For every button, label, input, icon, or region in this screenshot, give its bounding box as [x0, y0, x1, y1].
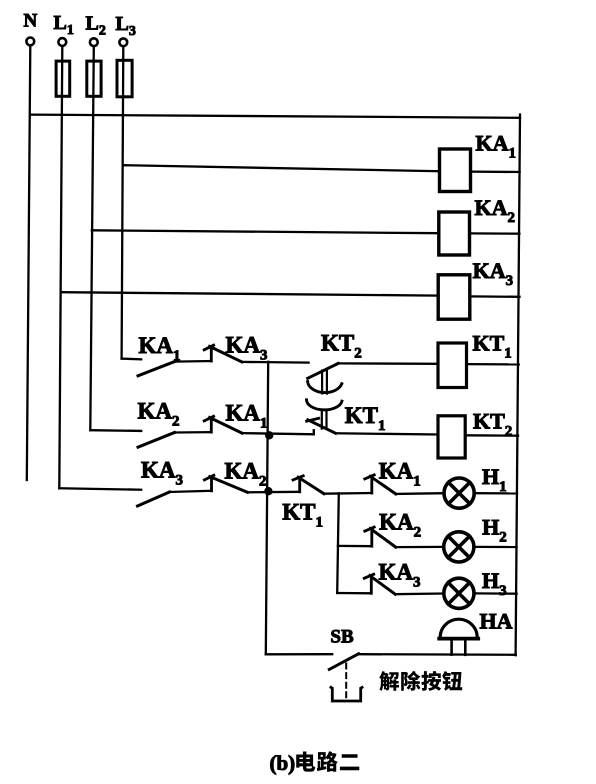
wire rung4 seg1 — [122, 357, 142, 360]
svg-text:L2: L2 — [86, 13, 106, 39]
wire rung4 seg4 — [338, 362, 438, 365]
contact KT1 (timed NC) — [307, 400, 342, 435]
wire L2 vertical — [90, 47, 94, 431]
terminal L1 — [54, 12, 74, 46]
label release-button text — [379, 671, 462, 691]
wire rung8 seg3 — [475, 592, 517, 595]
contact KT1 (NC) — [293, 476, 324, 494]
fuse FU2 — [87, 61, 101, 96]
wire lamp branch vertical — [337, 493, 339, 593]
svg-text:KA3: KA3 — [473, 258, 513, 289]
contact KA3 (NC) — [204, 345, 242, 362]
pushbutton SB (NO) — [329, 654, 362, 701]
node junction rung5 — [265, 431, 273, 439]
wire rung5 seg3 — [242, 433, 314, 434]
svg-text:KA2: KA2 — [475, 195, 516, 226]
wire rung4 seg5 — [467, 363, 519, 366]
wire rung7 seg2 — [396, 546, 443, 548]
svg-text:L3: L3 — [116, 13, 136, 39]
svg-text:KT1: KT1 — [345, 403, 386, 434]
bell HA — [439, 619, 478, 655]
svg-text:SB: SB — [330, 626, 354, 647]
wire rung8 seg2 — [395, 592, 443, 595]
svg-text:KA3: KA3 — [226, 333, 268, 364]
wire rung4 seg2 — [175, 360, 212, 363]
svg-text:(b): (b) — [270, 751, 296, 775]
wire rung2 right — [471, 170, 520, 173]
wire rung6 seg4 — [324, 492, 372, 495]
contact KA2 (NO) — [138, 433, 175, 448]
wire rung5 seg1 — [90, 429, 141, 432]
terminal L2 — [86, 13, 106, 47]
wire rung4 seg3 — [242, 361, 309, 364]
wire rung5 seg4 — [336, 433, 438, 434]
svg-text:L1: L1 — [54, 12, 74, 38]
timer coil KT2 — [438, 416, 465, 458]
contact KA2 (NC) lamp2 — [365, 527, 396, 547]
wire L3 vertical — [122, 47, 124, 359]
wire N vertical — [27, 46, 31, 480]
terminal N — [24, 11, 38, 46]
lamp H3 — [444, 578, 474, 608]
contact KA1 (NO) — [138, 362, 175, 376]
svg-text:KA1: KA1 — [139, 333, 181, 364]
wire rung3 right — [470, 232, 520, 235]
relay coil KA3 — [438, 275, 470, 319]
lamp H1 — [444, 478, 474, 508]
wire rung5 seg5 — [465, 434, 518, 437]
svg-text:KA1: KA1 — [379, 458, 421, 489]
relay coil KA1 — [440, 149, 471, 192]
wire rung3b right — [470, 295, 520, 298]
svg-text:H1: H1 — [482, 464, 507, 495]
wire right rail — [516, 115, 520, 656]
fuse FU3 — [117, 60, 132, 97]
wire rung2 left — [123, 165, 440, 171]
svg-text:N: N — [24, 11, 38, 32]
wire rung6 seg3 — [248, 491, 300, 494]
wire bottom seg2 — [359, 653, 516, 656]
timer coil KT1 — [438, 343, 467, 388]
lamp H2 — [444, 532, 474, 562]
wire rung6 seg2 — [170, 491, 212, 492]
svg-text:H2: H2 — [482, 514, 507, 545]
contact KA3 (NO) — [138, 492, 170, 506]
svg-text:KA2: KA2 — [379, 510, 421, 541]
wire N bus — [30, 115, 520, 118]
contact KA3 (NC) lamp3 — [364, 574, 395, 594]
wire rung6 seg5 — [396, 492, 444, 495]
svg-text:KA2: KA2 — [138, 399, 180, 430]
wire rung7 seg1 — [338, 545, 372, 548]
wire rung3b left — [61, 292, 438, 295]
wire centre branch vertical — [266, 362, 268, 655]
node junction rung6 — [264, 487, 272, 495]
svg-text:KT1: KT1 — [473, 331, 512, 362]
contact KA2 (NC) — [204, 475, 247, 492]
svg-text:KT2: KT2 — [321, 331, 362, 362]
contact KA1 (NC) lamp1 — [365, 475, 396, 494]
terminal L3 — [116, 13, 136, 46]
contact KT2 (timed NO) — [308, 363, 342, 393]
wire rung6 seg1 — [59, 488, 141, 489]
wire rung5 seg2 — [175, 431, 212, 434]
wire rung7 seg3 — [475, 546, 517, 548]
svg-text:KA1: KA1 — [476, 131, 517, 162]
relay coil KA2 — [439, 212, 470, 255]
svg-text:KA3: KA3 — [141, 458, 183, 489]
wire rung8 seg1 — [337, 592, 371, 595]
wire bottom seg1 — [266, 653, 332, 655]
wire rung6 seg6 — [475, 492, 517, 494]
contact KA1 (NC) — [204, 416, 242, 433]
fuse FU1 — [56, 61, 70, 96]
svg-text:KT1: KT1 — [282, 499, 323, 530]
wire rung3 left — [92, 230, 439, 233]
wire L1 vertical — [59, 46, 62, 488]
svg-text:HA: HA — [480, 609, 513, 634]
